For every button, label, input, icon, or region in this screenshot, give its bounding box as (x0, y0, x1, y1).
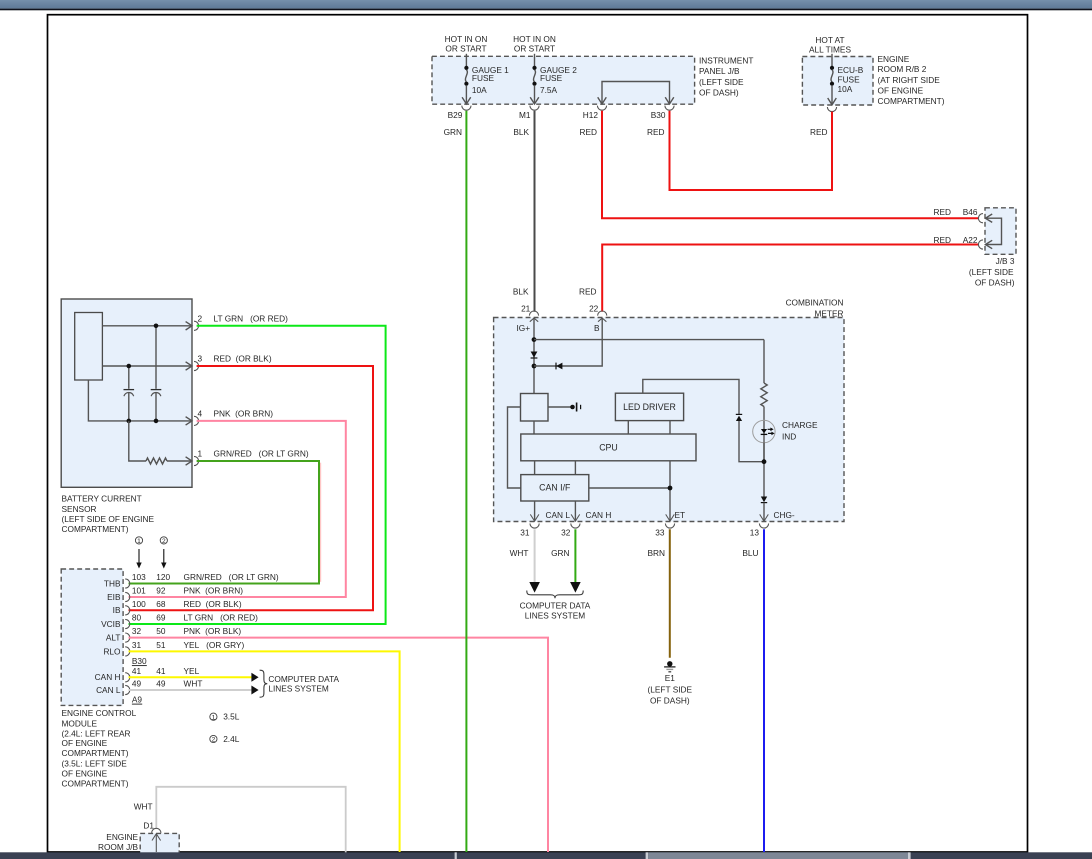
svg-text:(AT RIGHT SIDE: (AT RIGHT SIDE (878, 75, 941, 85)
svg-text:(3.5L: LEFT SIDE: (3.5L: LEFT SIDE (62, 759, 128, 769)
svg-text:RED: RED (810, 127, 828, 137)
svg-text:LED DRIVER: LED DRIVER (623, 402, 676, 412)
svg-text:CAN I/F: CAN I/F (539, 483, 571, 493)
svg-text:LINES SYSTEM: LINES SYSTEM (525, 610, 585, 620)
svg-text:CAN H: CAN H (95, 672, 121, 682)
svg-text:FUSE: FUSE (540, 73, 563, 83)
junction dots sensor (154, 324, 159, 329)
wire RED A22 to meter pin 22 (602, 245, 979, 312)
sensor pin 3 connector (194, 354, 272, 371)
connector label B30 (underlined) (132, 656, 147, 666)
svg-text:COMPARTMENT): COMPARTMENT) (878, 96, 945, 106)
svg-text:LT GRN (OR RED): LT GRN (OR RED) (184, 613, 259, 623)
svg-text:CAN L: CAN L (546, 510, 571, 520)
svg-text:CAN H: CAN H (586, 510, 612, 520)
svg-text:EIB: EIB (107, 592, 121, 602)
svg-text:(LEFT SIDE: (LEFT SIDE (699, 77, 744, 87)
svg-text:22: 22 (589, 304, 599, 314)
engine room J/B box (98, 832, 179, 859)
svg-text:GRN: GRN (444, 127, 462, 137)
svg-text:21: 21 (521, 304, 531, 314)
wire WHT CAN L to data lines (129, 686, 259, 695)
pin M1 (519, 106, 539, 120)
wire RED B30 to ECU-B fuse (670, 111, 833, 190)
svg-text:51: 51 (156, 640, 166, 650)
meter internal: IG+ vertical line (533, 318, 535, 394)
buzzer/contact symbol right of regulator (548, 403, 581, 412)
svg-text:OF ENGINE: OF ENGINE (62, 769, 108, 779)
fuse GAUGE 2 7.5A (513, 34, 577, 104)
sensor element rectangle (75, 313, 103, 381)
svg-text:E1: E1 (665, 673, 676, 683)
meter internal: B branch with diode (534, 318, 602, 366)
svg-text:COMPARTMENT): COMPARTMENT) (62, 779, 129, 789)
ECM pin THB (104, 572, 279, 588)
svg-text:B30: B30 (651, 110, 666, 120)
svg-text:BRN: BRN (647, 548, 665, 558)
svg-text:YEL (OR GRY): YEL (OR GRY) (184, 640, 245, 650)
svg-text:H12: H12 (583, 110, 599, 120)
diode D2 meter (B to IG+, pointing left) (556, 363, 562, 370)
svg-text:41: 41 (156, 666, 166, 676)
svg-text:ALL TIMES: ALL TIMES (809, 44, 851, 54)
engine control module box (61, 569, 136, 789)
wire PNK ALT down page (129, 638, 549, 852)
svg-text:2.4L: 2.4L (223, 734, 240, 744)
wire BLK M1 to meter pin 21 (534, 111, 536, 312)
pin 22 B (589, 304, 607, 333)
wire WHT pin 31 (510, 529, 540, 592)
svg-text:OF DASH): OF DASH) (699, 88, 739, 98)
svg-text:VCIB: VCIB (101, 619, 121, 629)
svg-text:92: 92 (156, 586, 166, 596)
wire diode D4 to pin 13 (760, 503, 769, 522)
svg-text:M1: M1 (519, 110, 531, 120)
wire RED sensor pin3 to ECM IB (129, 366, 374, 610)
wire YEL RLO down page (129, 651, 400, 852)
svg-text:68: 68 (156, 599, 166, 609)
svg-text:RED: RED (579, 286, 597, 296)
svg-text:3: 3 (198, 354, 203, 364)
svg-text:GRN/RED (OR LT GRN): GRN/RED (OR LT GRN) (184, 572, 279, 582)
svg-text:OF DASH): OF DASH) (975, 278, 1015, 288)
charge indicator LED circle (753, 420, 818, 442)
LED DRIVER block (615, 393, 683, 420)
ECM pin CAN L (96, 679, 202, 695)
svg-text:GRN: GRN (551, 548, 569, 558)
svg-text:B: B (594, 323, 600, 333)
pin H12 (583, 106, 607, 120)
circled 1 with arrow (135, 537, 142, 569)
svg-text:COMPUTER DATA: COMPUTER DATA (520, 601, 591, 611)
svg-text:MODULE: MODULE (62, 718, 98, 728)
wire BLU pin 13 down page (742, 529, 764, 852)
wire regulator to CPU (533, 421, 535, 434)
svg-text:(LEFT SIDE OF ENGINE: (LEFT SIDE OF ENGINE (62, 514, 155, 524)
svg-text:A22: A22 (963, 235, 978, 245)
wire LED to CHG junction (763, 442, 765, 496)
browser top bar (0, 0, 1092, 10)
svg-text:7.5A: 7.5A (540, 85, 558, 95)
fuse ECU-B 10A (809, 35, 864, 105)
diode D3 meter (pointing up) (736, 414, 742, 421)
svg-text:(LEFT SIDE: (LEFT SIDE (969, 267, 1014, 277)
svg-text:B29: B29 (448, 110, 463, 120)
svg-text:13: 13 (750, 527, 760, 537)
svg-text:ENGINE: ENGINE (106, 832, 138, 842)
svg-text:10A: 10A (838, 84, 853, 94)
svg-text:WHT: WHT (510, 548, 529, 558)
svg-text:2: 2 (162, 538, 166, 545)
wire regulator feedback to CAN I/F (508, 407, 521, 488)
svg-text:120: 120 (156, 572, 170, 582)
wire CPU to pin 33 ET (666, 461, 675, 521)
wires LED driver to CPU (628, 421, 670, 434)
capacitor C1 (sensor) (124, 366, 135, 421)
brace computer data lines (ECM) (260, 670, 340, 697)
svg-text:RED: RED (647, 127, 665, 137)
wire LT GRN sensor pin2 to ECM VCIB (129, 326, 386, 624)
fuse GAUGE 1 10A (445, 34, 510, 104)
wire arrow into D1 (152, 834, 161, 852)
svg-text:CPU: CPU (599, 443, 618, 453)
svg-text:103: 103 (132, 572, 146, 582)
pin B46 (933, 207, 983, 223)
svg-text:RLO: RLO (103, 646, 121, 656)
svg-text:B30: B30 (132, 656, 147, 666)
svg-text:BATTERY CURRENT: BATTERY CURRENT (62, 494, 142, 504)
svg-text:OR START: OR START (514, 43, 555, 53)
wire LED driver top to charge diode branch (643, 379, 739, 414)
svg-text:3.5L: 3.5L (223, 712, 240, 722)
sensor internal wire pin 4 (88, 380, 192, 425)
bridge H12-B30 inside instrument panel J/B (598, 82, 674, 105)
svg-text:BLK: BLK (513, 286, 529, 296)
svg-text:J/B 3: J/B 3 (996, 256, 1015, 266)
pin ECU-B output (827, 107, 836, 112)
bridge B46-A22 inside J/B 3 (985, 214, 1001, 249)
svg-text:69: 69 (156, 613, 166, 623)
wire GRN B29 down page (465, 111, 467, 852)
svg-text:RED: RED (579, 127, 597, 137)
wire GRN pin 32 (551, 529, 581, 592)
svg-text:PNK (OR BLK): PNK (OR BLK) (184, 626, 242, 636)
svg-text:IB: IB (113, 605, 121, 615)
svg-text:32: 32 (561, 527, 571, 537)
bottom scrollbar (0, 852, 1092, 859)
pin B30 (651, 106, 674, 120)
svg-text:OF ENGINE: OF ENGINE (878, 86, 924, 96)
svg-text:101: 101 (132, 586, 146, 596)
sensor internal wire pin 2 (102, 322, 192, 330)
svg-text:1: 1 (198, 449, 203, 459)
battery current sensor box (61, 299, 192, 534)
svg-text:10A: 10A (472, 85, 487, 95)
meter internal: IG+ horizontal to charge branch (534, 339, 764, 341)
junction CHG node (762, 459, 767, 464)
svg-text:OR START: OR START (445, 43, 486, 53)
svg-text:49: 49 (156, 679, 166, 689)
CPU block (521, 434, 696, 461)
svg-text:41: 41 (132, 666, 142, 676)
diode D1 meter (IG+ down) (531, 352, 538, 359)
wire CAN I/F to pin 31 (530, 501, 539, 521)
svg-text:IG+: IG+ (517, 323, 531, 333)
svg-text:CHARGE: CHARGE (782, 420, 818, 430)
wire RED H12 to B46 (602, 111, 979, 218)
wire WHT engine room J/B D1 loop (134, 787, 346, 853)
svg-text:4: 4 (198, 408, 203, 418)
svg-text:COMBINATION: COMBINATION (786, 298, 844, 308)
svg-text:ENGINE: ENGINE (878, 54, 910, 64)
svg-text:RED (OR BLK): RED (OR BLK) (184, 599, 242, 609)
svg-text:A9: A9 (132, 694, 143, 704)
svg-text:RED: RED (933, 207, 951, 217)
svg-text:WHT: WHT (134, 801, 153, 811)
svg-text:1: 1 (137, 538, 141, 545)
svg-text:D1: D1 (143, 820, 154, 830)
wires CPU to CAN I/F (535, 461, 576, 475)
junction IG+ node (532, 337, 537, 342)
svg-text:COMPARTMENT): COMPARTMENT) (62, 524, 129, 534)
resistor R1 (sensor) and wire pin 1 (129, 421, 192, 465)
pin A22 (933, 235, 983, 249)
svg-text:(LEFT SIDE: (LEFT SIDE (648, 685, 693, 695)
ECM pin RLO (103, 640, 244, 656)
sensor pin 2 connector (194, 313, 288, 330)
connector label A9 (underlined) (132, 694, 143, 704)
svg-text:80: 80 (132, 613, 142, 623)
pin B29 (448, 106, 471, 120)
svg-text:BLU: BLU (742, 548, 758, 558)
svg-text:COMPARTMENT): COMPARTMENT) (62, 748, 129, 758)
svg-text:100: 100 (132, 599, 146, 609)
svg-text:OF ENGINE: OF ENGINE (62, 738, 108, 748)
svg-text:1: 1 (212, 714, 216, 721)
diode D4 meter (pointing down to CHG-) (761, 497, 767, 503)
svg-text:ALT: ALT (106, 633, 121, 643)
svg-text:CHG-: CHG- (774, 510, 795, 520)
svg-text:31: 31 (132, 640, 142, 650)
svg-text:31: 31 (520, 527, 530, 537)
svg-text:FUSE: FUSE (472, 73, 495, 83)
wire YEL CAN H to data lines (129, 673, 259, 682)
capacitor C2 (sensor) (151, 326, 162, 421)
svg-text:IND: IND (782, 431, 796, 441)
pin 21 IG+ (517, 304, 539, 333)
regulator block (small box) (521, 394, 549, 422)
wire GRN/RED sensor pin1 to ECM THB (129, 461, 321, 584)
wire CAN I/F to ET line (589, 487, 670, 489)
svg-text:OF DASH): OF DASH) (650, 695, 690, 705)
svg-text:ET: ET (675, 510, 686, 520)
svg-text:2: 2 (212, 737, 216, 744)
sensor internal wire pin 3 (102, 362, 192, 370)
svg-text:PNK (OR BRN): PNK (OR BRN) (184, 586, 244, 596)
svg-text:PANEL J/B: PANEL J/B (699, 66, 740, 76)
svg-text:PNK (OR BRN): PNK (OR BRN) (214, 408, 274, 418)
svg-text:BLK: BLK (513, 127, 529, 137)
wire BRN pin 33 (647, 529, 669, 658)
svg-text:SENSOR: SENSOR (62, 504, 97, 514)
wire diode D3 to CHG junction (739, 421, 764, 462)
svg-text:32: 32 (132, 626, 142, 636)
ground E1 (648, 661, 693, 705)
note circled 2 = 2.4L (210, 734, 240, 744)
instrument panel J/B box (432, 56, 753, 105)
svg-text:50: 50 (156, 626, 166, 636)
svg-text:GRN/RED (OR LT GRN): GRN/RED (OR LT GRN) (214, 449, 309, 459)
resistor meter (charge branch) (761, 340, 767, 462)
svg-text:YEL: YEL (184, 666, 200, 676)
junction IG+/B node (532, 364, 537, 369)
sensor pin 1 connector (194, 449, 309, 466)
svg-text:THB: THB (104, 578, 121, 588)
pin 33 (655, 524, 674, 538)
ECM pin ALT (106, 626, 241, 642)
svg-text:CAN L: CAN L (96, 685, 121, 695)
engine room R/B 2 box (802, 54, 944, 106)
wire PNK sensor pin4 to ECM EIB (129, 421, 346, 597)
svg-text:ROOM R/B 2: ROOM R/B 2 (878, 64, 927, 74)
sensor pin 4 connector (194, 408, 273, 425)
svg-text:(2.4L: LEFT REAR: (2.4L: LEFT REAR (62, 728, 131, 738)
svg-text:RED (OR BLK): RED (OR BLK) (214, 354, 272, 364)
pin 31 (520, 524, 539, 538)
ECM pin VCIB (101, 613, 258, 629)
junction-box J/B 3 (969, 208, 1016, 288)
svg-text:ROOM J/B: ROOM J/B (98, 842, 139, 852)
svg-text:LINES SYSTEM: LINES SYSTEM (268, 684, 328, 694)
junction ET node (668, 486, 673, 491)
svg-text:B46: B46 (963, 207, 978, 217)
svg-text:2: 2 (198, 313, 203, 323)
svg-text:COMPUTER DATA: COMPUTER DATA (268, 674, 339, 684)
ECM pin CAN H (95, 666, 200, 682)
circled 2 with arrow (160, 537, 167, 569)
note circled 1 = 3.5L (210, 712, 240, 722)
pin 13 (750, 524, 769, 538)
CAN I/F block (521, 475, 589, 501)
svg-text:WHT: WHT (184, 679, 203, 689)
brace computer data lines (meter) (520, 591, 591, 621)
svg-text:49: 49 (132, 679, 142, 689)
pin D1 (143, 820, 161, 833)
svg-text:RED: RED (933, 235, 951, 245)
svg-text:LT GRN (OR RED): LT GRN (OR RED) (214, 313, 289, 323)
pin 32 (561, 524, 580, 538)
ECM pin IB (113, 599, 242, 615)
wire CAN I/F to pin 32 (571, 501, 580, 521)
svg-text:33: 33 (655, 527, 665, 537)
svg-text:INSTRUMENT: INSTRUMENT (699, 56, 753, 66)
svg-text:FUSE: FUSE (838, 74, 861, 84)
svg-text:ENGINE CONTROL: ENGINE CONTROL (62, 708, 137, 718)
ECM pin EIB (107, 586, 243, 602)
combination meter box (494, 298, 844, 522)
